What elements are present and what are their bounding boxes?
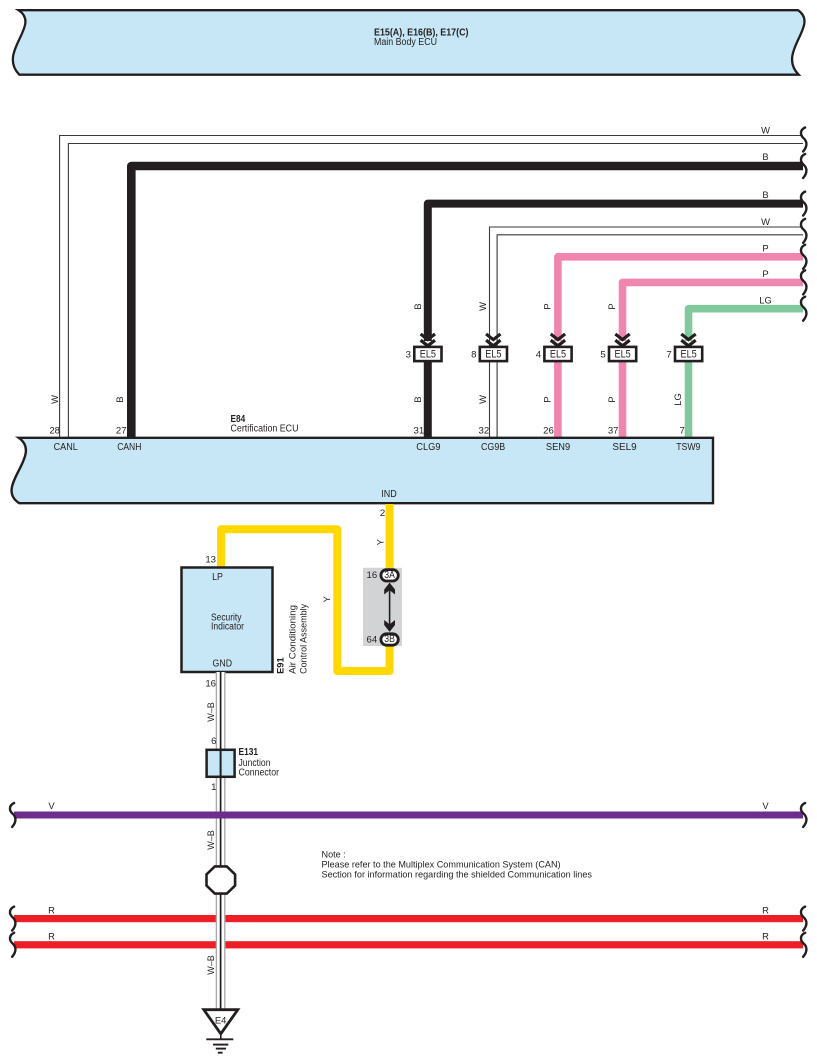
label Air Conditioning Control Assembly	[287, 604, 309, 674]
wire P SEL9 lower segment	[619, 362, 627, 439]
ground E4	[204, 1010, 238, 1053]
svg-text:Control Assembly: Control Assembly	[298, 604, 309, 674]
wire B CANH (black)	[131, 166, 803, 438]
break symbol wire B CANH	[801, 154, 806, 178]
svg-text:P: P	[762, 268, 768, 279]
connector oval 3B	[381, 634, 398, 645]
svg-text:B: B	[412, 303, 423, 309]
svg-text:6: 6	[211, 736, 216, 747]
break symbol wire P SEL9	[801, 270, 806, 294]
svg-text:E4: E4	[215, 1014, 226, 1025]
power line R (lower red)	[14, 941, 803, 948]
wire W CG9B upper segment (white, outlined)	[490, 227, 804, 346]
svg-text:28: 28	[49, 426, 60, 437]
svg-text:CANL: CANL	[54, 442, 79, 453]
svg-text:B: B	[412, 396, 423, 402]
svg-text:31: 31	[414, 426, 425, 437]
svg-text:Connector: Connector	[239, 767, 280, 778]
svg-text:26: 26	[543, 426, 554, 437]
svg-text:EL5: EL5	[681, 349, 697, 361]
svg-text:13: 13	[205, 555, 216, 566]
svg-text:37: 37	[608, 426, 619, 437]
svg-text:4: 4	[536, 350, 542, 361]
wire Y from IND pin 2 to connector 3A	[386, 504, 394, 573]
svg-text:W: W	[49, 395, 60, 404]
svg-text:EL5: EL5	[615, 349, 631, 361]
svg-text:P: P	[541, 396, 552, 402]
wire B CLG9 lower segment	[424, 362, 432, 439]
svg-text:V: V	[48, 800, 55, 811]
svg-text:Note :: Note :	[322, 850, 346, 860]
arrow between 3A and 3B	[384, 583, 395, 632]
svg-text:B: B	[762, 189, 768, 200]
svg-text:Indicator: Indicator	[211, 621, 245, 632]
svg-text:SEL9: SEL9	[612, 442, 637, 453]
power line R (upper red)	[14, 915, 803, 922]
svg-text:Please refer to the Multiplex: Please refer to the Multiplex Communicat…	[322, 859, 561, 869]
svg-text:Main Body ECU: Main Body ECU	[374, 37, 437, 48]
svg-text:P: P	[762, 243, 768, 254]
connector EL5 pin 7	[666, 334, 702, 361]
wire P SEN9 lower segment	[554, 362, 562, 439]
svg-text:EL5: EL5	[550, 349, 566, 361]
wire B CLG9 upper segment (black)	[428, 204, 803, 341]
svg-text:27: 27	[116, 426, 127, 437]
svg-text:Air Conditioning: Air Conditioning	[287, 605, 298, 674]
break symbol R lower left	[10, 933, 15, 957]
svg-text:16: 16	[205, 679, 216, 690]
svg-text:GND: GND	[213, 658, 233, 669]
svg-text:Certification ECU: Certification ECU	[231, 424, 299, 435]
svg-text:W: W	[477, 302, 488, 311]
svg-text:W–B: W–B	[206, 955, 216, 975]
svg-text:LG: LG	[759, 295, 772, 306]
connector EL5 pin 4	[536, 334, 572, 361]
connector EL5 pin 3	[406, 334, 442, 361]
svg-text:2: 2	[380, 508, 385, 519]
wire W-B from junction connector to octagon junction	[216, 777, 224, 867]
wire LG TSW9 lower segment	[685, 362, 693, 439]
svg-text:W–B: W–B	[206, 830, 216, 850]
break symbol R upper right	[801, 907, 806, 931]
break symbol wire W CANL	[801, 128, 806, 152]
connector EL5 pin 5	[600, 334, 636, 361]
wire W CANL (white, outlined)	[60, 136, 803, 439]
svg-text:W: W	[761, 216, 770, 227]
break symbol R upper left	[10, 907, 15, 931]
svg-text:16: 16	[367, 570, 378, 581]
svg-text:P: P	[606, 303, 617, 309]
connector oval 3A	[381, 570, 398, 581]
svg-text:3B: 3B	[384, 634, 395, 645]
wire P SEL9 upper segment (pink)	[623, 282, 804, 341]
break symbol wire B CLG9	[801, 192, 806, 216]
svg-text:R: R	[48, 904, 55, 915]
svg-text:B: B	[114, 396, 125, 402]
svg-text:8: 8	[471, 350, 476, 361]
svg-text:P: P	[606, 396, 617, 402]
wire W-B from octagon junction to ground E4	[216, 893, 224, 1010]
svg-text:7: 7	[680, 426, 685, 437]
svg-text:P: P	[541, 303, 552, 309]
label Security Indicator	[211, 613, 245, 633]
svg-text:Y: Y	[374, 538, 385, 545]
svg-text:E131: E131	[239, 747, 259, 758]
svg-text:5: 5	[600, 350, 605, 361]
wire W CG9B lower segment	[490, 362, 498, 439]
break symbol V line right	[801, 803, 806, 827]
ECU band E84 Certification ECU	[12, 438, 713, 503]
connector EL5 pin 8	[471, 334, 507, 361]
svg-text:64: 64	[367, 635, 378, 646]
svg-text:W–B: W–B	[206, 702, 216, 722]
wire P SEN9 upper segment (pink)	[558, 257, 803, 341]
svg-text:R: R	[762, 931, 769, 942]
wire LG TSW9 upper segment (light green)	[689, 309, 804, 341]
svg-text:TSW9: TSW9	[676, 442, 701, 453]
svg-text:W: W	[761, 125, 770, 136]
svg-text:W: W	[477, 395, 488, 404]
svg-text:7: 7	[666, 350, 671, 361]
break symbol V line left	[10, 803, 15, 827]
svg-text:LP: LP	[212, 572, 223, 583]
power line V (purple)	[14, 812, 803, 819]
svg-text:R: R	[762, 904, 769, 915]
break symbol wire LG TSW9	[801, 297, 806, 321]
svg-text:Y: Y	[321, 595, 332, 602]
svg-text:E91: E91	[275, 657, 285, 674]
svg-text:EL5: EL5	[420, 349, 436, 361]
svg-text:1: 1	[211, 782, 216, 793]
wire W-B from GND to junction connector	[216, 672, 224, 750]
svg-text:3A: 3A	[384, 570, 395, 581]
svg-text:32: 32	[479, 426, 490, 437]
connector block 3A/3B (gray)	[363, 568, 402, 646]
svg-text:B: B	[762, 151, 768, 162]
note text	[322, 850, 593, 880]
svg-text:LG: LG	[672, 393, 683, 406]
svg-text:CANH: CANH	[117, 442, 141, 453]
break symbol wire W CG9B	[801, 219, 806, 243]
svg-text:Section for information regard: Section for information regarding the sh…	[322, 869, 593, 879]
Security Indicator box (E91)	[182, 568, 273, 673]
break symbol wire P SEN9	[801, 245, 806, 269]
break symbol R lower right	[801, 933, 806, 957]
svg-text:CG9B: CG9B	[481, 442, 505, 453]
wire Y from connector 3B to LP pin 13	[221, 529, 390, 671]
junction connector E131	[207, 750, 235, 777]
svg-text:SEN9: SEN9	[546, 442, 571, 453]
svg-text:EL5: EL5	[485, 349, 501, 361]
label Junction Connector	[239, 758, 280, 778]
ECU banner E15(A) E16(B) E17(C) Main Body ECU	[13, 10, 805, 75]
svg-text:IND: IND	[381, 489, 397, 500]
octagon junction node	[207, 866, 236, 893]
svg-text:3: 3	[406, 350, 411, 361]
svg-text:R: R	[48, 931, 55, 942]
svg-text:V: V	[762, 800, 769, 811]
svg-text:CLG9: CLG9	[416, 442, 441, 453]
